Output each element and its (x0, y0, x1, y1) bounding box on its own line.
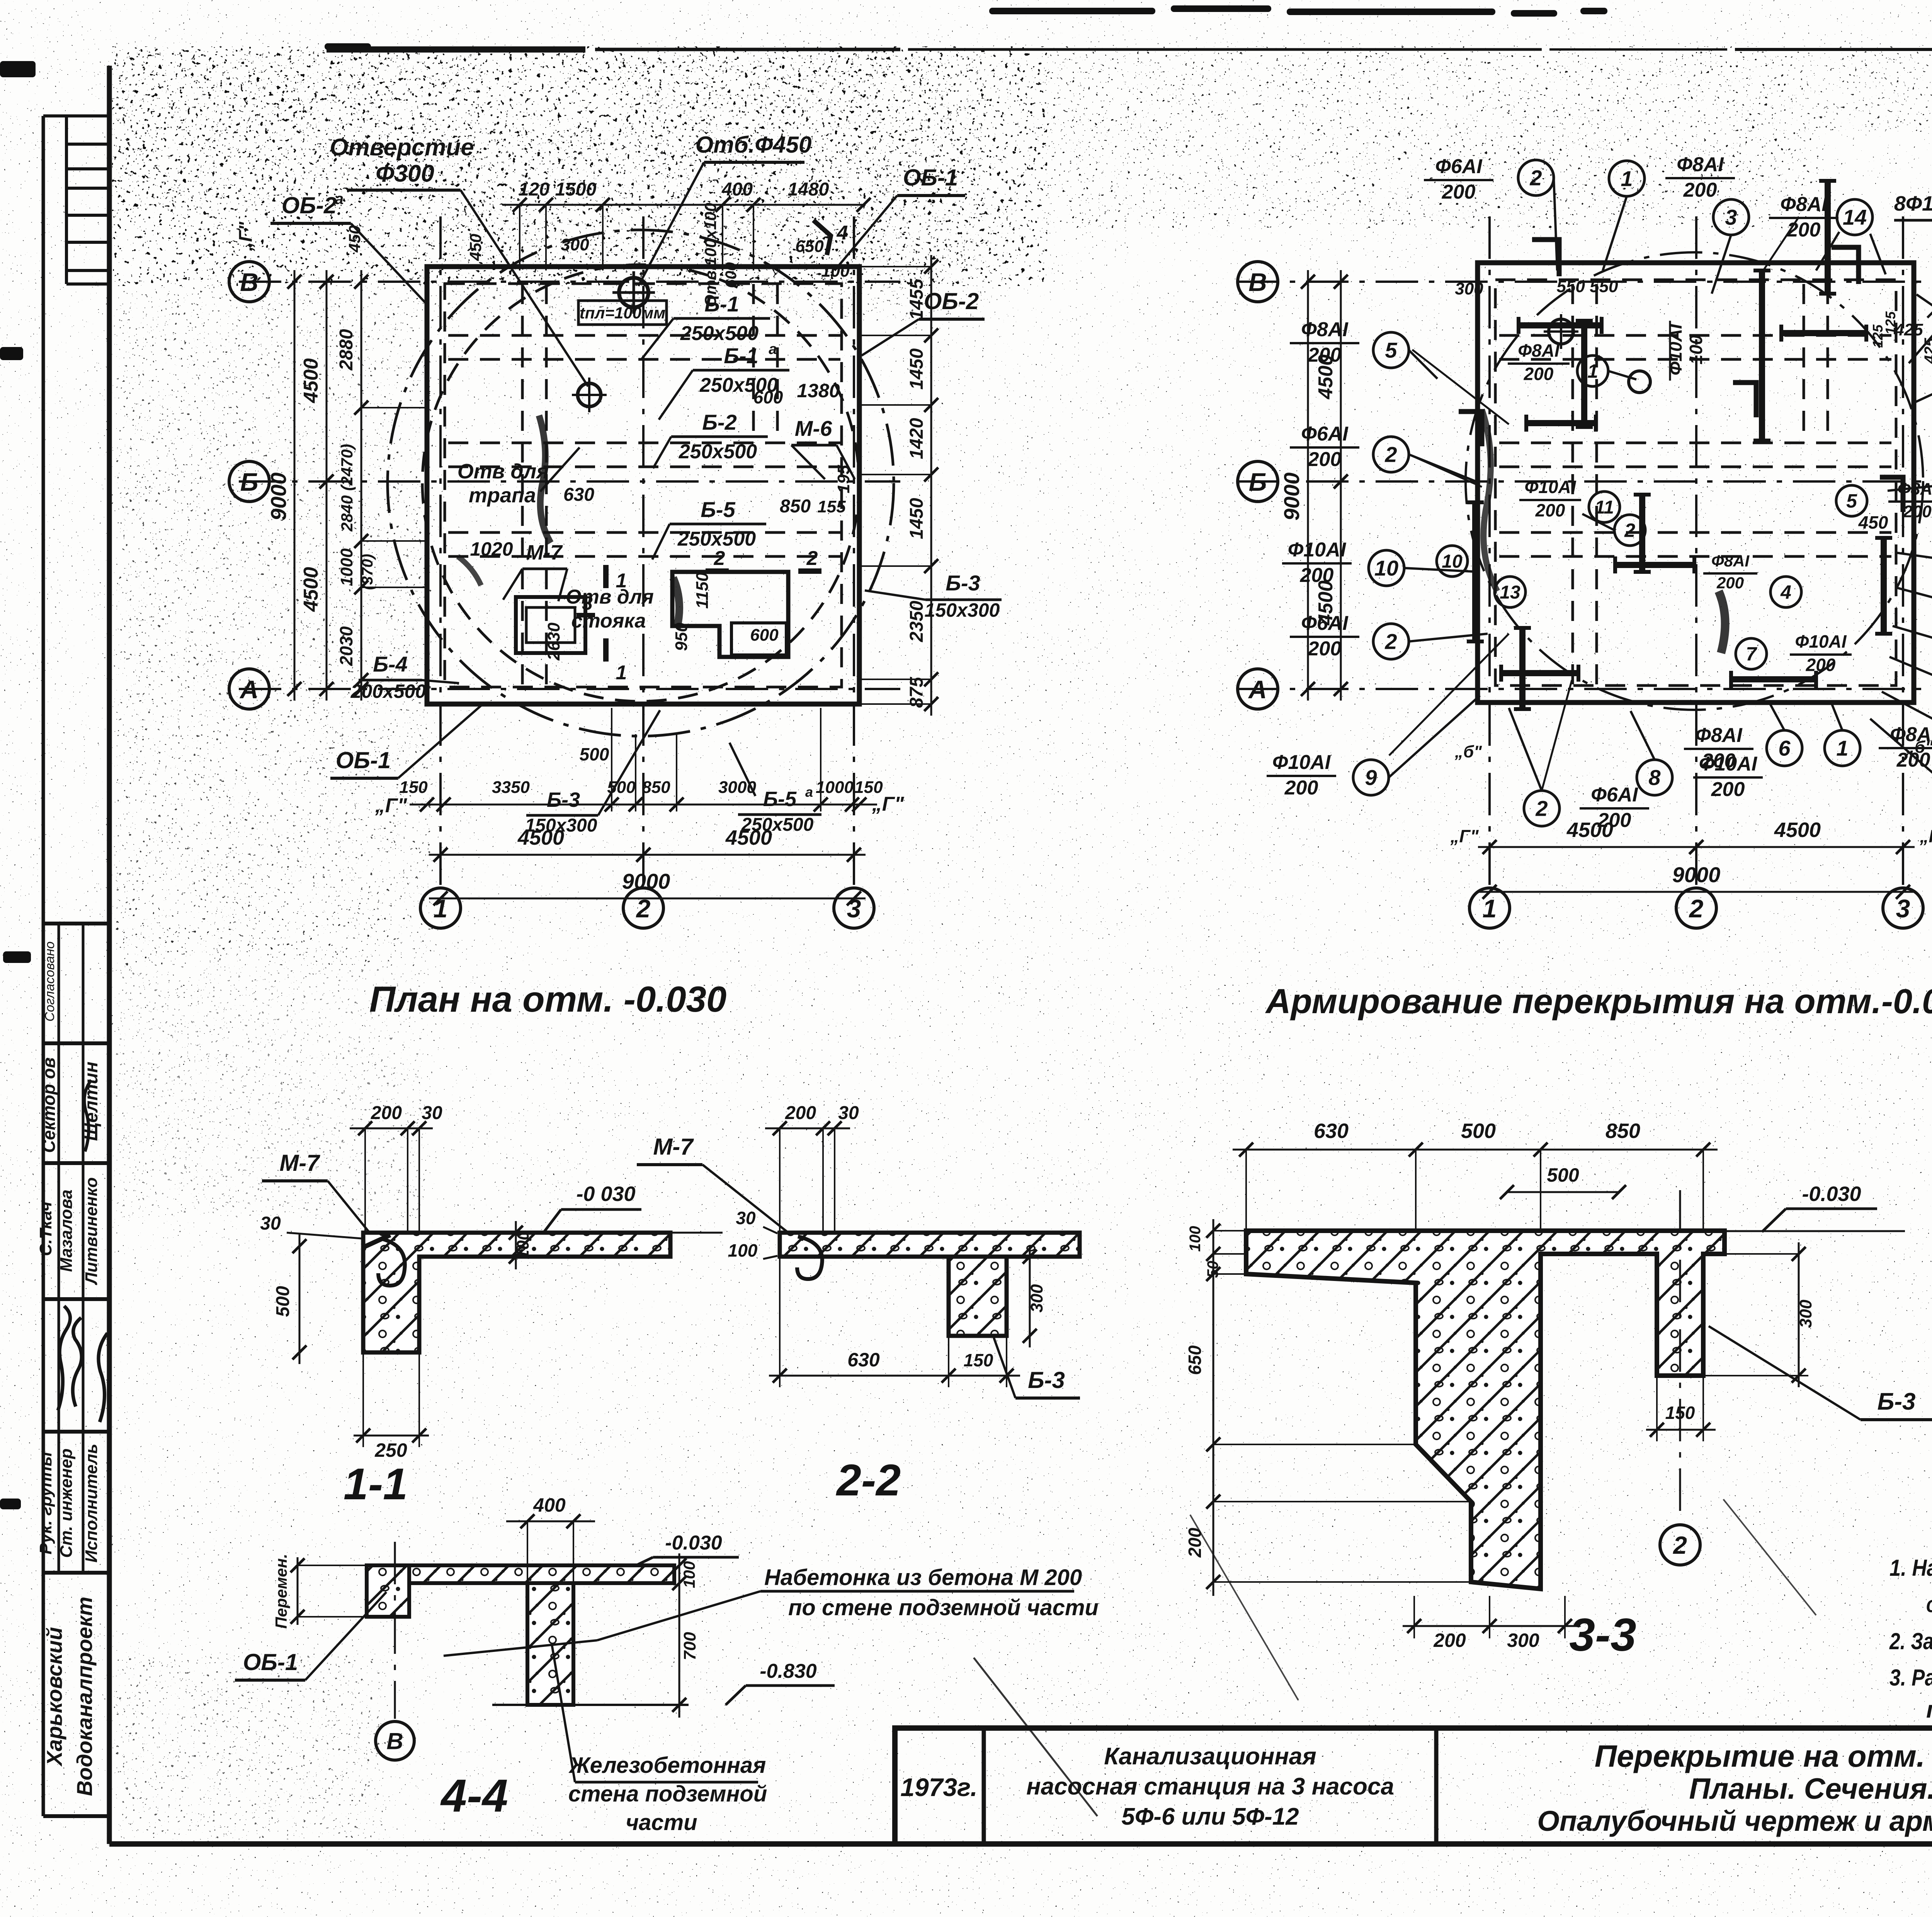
svg-text:3000: 3000 (718, 778, 756, 797)
svg-text:Железобетонная: Железобетонная (568, 1753, 766, 1778)
svg-text:200: 200 (1787, 219, 1821, 241)
svg-text:3350: 3350 (492, 778, 530, 797)
svg-text:Отверстие: Отверстие (330, 134, 474, 161)
svg-text:200: 200 (1442, 181, 1476, 203)
svg-text:по стене подземной части: по стене подземной части (788, 1595, 1099, 1620)
svg-text:1380: 1380 (797, 380, 840, 401)
svg-text:200: 200 (1284, 777, 1318, 799)
svg-text:-0.030: -0.030 (1802, 1182, 1861, 1206)
svg-text:400: 400 (533, 1494, 566, 1516)
svg-text:М-7: М-7 (526, 541, 563, 564)
svg-text:150х300: 150х300 (925, 599, 1000, 621)
svg-text:Б-3: Б-3 (1028, 1367, 1065, 1393)
svg-text:2: 2 (1535, 796, 1548, 821)
svg-text:2: 2 (1624, 520, 1635, 541)
svg-text:Ф10АI: Ф10АI (1795, 631, 1847, 651)
svg-text:Исполнитель: Исполнитель (82, 1444, 101, 1563)
svg-text:3-3: 3-3 (1569, 1609, 1636, 1661)
svg-text:500: 500 (1547, 1164, 1579, 1186)
svg-text:14: 14 (1843, 205, 1867, 230)
svg-text:30: 30 (422, 1103, 442, 1123)
svg-text:1450: 1450 (906, 498, 927, 539)
svg-text:Ф8АI: Ф8АI (1677, 153, 1724, 176)
svg-text:Водоканалпроект: Водоканалпроект (72, 1597, 97, 1796)
svg-text:120: 120 (519, 179, 549, 200)
svg-text:Ф8АI: Ф8АI (1711, 552, 1750, 570)
svg-text:600: 600 (750, 626, 779, 645)
svg-text:Планы. Сечения.: Планы. Сечения. (1689, 1772, 1932, 1805)
svg-text:План на отм. -0.030: План на отм. -0.030 (369, 979, 727, 1019)
svg-text:1973г.: 1973г. (900, 1773, 978, 1801)
svg-text:„Г": „Г" (236, 221, 256, 252)
svg-text:630: 630 (1314, 1119, 1349, 1143)
svg-text:200: 200 (1308, 638, 1342, 660)
svg-text:3. Размеры в скобках даны для: 3. Размеры в скобках даны для перекрытия… (1889, 1665, 1932, 1691)
svg-text:Б-4: Б-4 (373, 652, 407, 676)
svg-text:„б": „б" (1906, 738, 1932, 757)
svg-text:„б": „б" (1454, 742, 1482, 761)
svg-text:9000: 9000 (1279, 473, 1304, 521)
svg-text:Мазалова: Мазалова (57, 1189, 76, 1272)
svg-text:ОБ-1: ОБ-1 (903, 165, 958, 191)
svg-text:875: 875 (906, 677, 927, 708)
svg-text:1150: 1150 (693, 572, 712, 609)
svg-text:1-1: 1-1 (344, 1459, 408, 1509)
svg-text:1455: 1455 (906, 278, 927, 320)
svg-text:4-4: 4-4 (440, 1770, 508, 1822)
svg-text:13: 13 (1500, 582, 1520, 603)
svg-text:Отв для: Отв для (457, 460, 549, 483)
svg-text:4: 4 (1780, 582, 1791, 603)
svg-text:450: 450 (466, 234, 485, 261)
svg-text:1000: 1000 (337, 548, 356, 586)
svg-text:500: 500 (273, 1286, 293, 1317)
svg-text:2: 2 (1384, 629, 1397, 654)
svg-text:1: 1 (1621, 167, 1633, 191)
svg-text:4500: 4500 (1566, 818, 1613, 842)
svg-text:части: части (626, 1810, 697, 1835)
svg-text:4500: 4500 (1315, 354, 1337, 400)
svg-text:Ф10АI: Ф10АI (1288, 539, 1347, 561)
svg-text:ОБ-1: ОБ-1 (243, 1649, 298, 1675)
svg-text:600: 600 (753, 387, 783, 407)
svg-text:4500: 4500 (725, 826, 772, 849)
svg-text:Армирование перекрытия на отм.: Армирование перекрытия на отм.-0.030 (1265, 982, 1932, 1021)
svg-text:8: 8 (1648, 765, 1661, 790)
svg-text:200: 200 (1524, 364, 1554, 384)
svg-text:Ф10АI: Ф10АI (1665, 323, 1685, 375)
svg-text:„Г": „Г" (1919, 826, 1932, 846)
svg-text:150: 150 (964, 1350, 993, 1370)
svg-text:(370): (370) (359, 554, 376, 590)
svg-text:200: 200 (1535, 500, 1565, 520)
svg-text:850: 850 (642, 778, 670, 797)
svg-text:4500: 4500 (300, 567, 322, 612)
svg-text:300: 300 (1027, 1284, 1046, 1313)
svg-text:Перекрытие на отм. -0,030.: Перекрытие на отм. -0,030. (1595, 1739, 1932, 1773)
svg-text:850: 850 (780, 496, 811, 517)
svg-text:650: 650 (795, 237, 824, 256)
svg-text:9000: 9000 (1672, 862, 1721, 887)
svg-text:„Г": „Г" (375, 794, 408, 817)
svg-text:250х500: 250х500 (679, 441, 757, 463)
svg-text:3: 3 (1725, 205, 1737, 230)
svg-text:500: 500 (580, 744, 609, 764)
svg-text:-0.030: -0.030 (665, 1532, 722, 1554)
svg-text:150: 150 (399, 778, 428, 797)
svg-text:М-7: М-7 (653, 1134, 694, 1160)
svg-text:425: 425 (1894, 320, 1923, 339)
svg-text:630: 630 (847, 1349, 880, 1371)
svg-text:600: 600 (723, 262, 740, 288)
svg-text:2: 2 (806, 547, 818, 570)
svg-text:9: 9 (1365, 765, 1377, 790)
svg-text:Рук. группы: Рук. группы (36, 1452, 55, 1555)
svg-text:Б-3: Б-3 (1877, 1388, 1915, 1415)
svg-text:1420: 1420 (906, 418, 927, 459)
svg-text:50: 50 (1204, 1261, 1221, 1278)
svg-text:300: 300 (561, 235, 589, 254)
svg-text:200: 200 (1711, 778, 1745, 801)
svg-text:10: 10 (1374, 556, 1398, 580)
svg-text:850: 850 (1605, 1119, 1640, 1143)
svg-text:1480: 1480 (788, 179, 829, 200)
svg-text:В: В (240, 268, 259, 296)
svg-text:1020: 1020 (470, 538, 513, 560)
svg-text:А: А (1248, 675, 1267, 704)
svg-text:1500: 1500 (555, 179, 597, 200)
svg-text:Отв.100х100: Отв.100х100 (701, 203, 719, 308)
svg-text:2-2: 2-2 (836, 1456, 901, 1505)
svg-text:ОБ-1: ОБ-1 (336, 747, 391, 773)
svg-text:4500: 4500 (1315, 580, 1337, 626)
svg-text:4: 4 (837, 222, 848, 244)
svg-text:Перемен.: Перемен. (272, 1554, 290, 1629)
svg-text:30: 30 (736, 1208, 756, 1228)
svg-text:200: 200 (1702, 750, 1736, 772)
svg-text:2: 2 (1529, 166, 1542, 190)
svg-text:2030: 2030 (336, 626, 356, 666)
svg-text:550 550: 550 550 (1556, 277, 1618, 296)
svg-text:700: 700 (680, 1632, 699, 1660)
svg-text:Отв для: Отв для (566, 586, 654, 608)
svg-text:500: 500 (1461, 1119, 1496, 1143)
svg-text:стена подземной: стена подземной (568, 1781, 767, 1806)
svg-text:200: 200 (1433, 1630, 1466, 1651)
svg-text:Опалубочный чертеж и армирован: Опалубочный чертеж и армирование. (1537, 1805, 1932, 1837)
svg-text:5: 5 (1846, 490, 1857, 512)
svg-text:6: 6 (1778, 736, 1791, 760)
svg-text:100: 100 (680, 1561, 698, 1588)
svg-text:Б-5: Б-5 (701, 497, 735, 522)
svg-text:5Ф-6 или 5Ф-12: 5Ф-6 или 5Ф-12 (1121, 1803, 1299, 1830)
svg-text:Б-3: Б-3 (547, 788, 580, 811)
svg-text:Б-3: Б-3 (946, 571, 980, 595)
svg-text:трапа: трапа (469, 484, 536, 507)
svg-text:Ф300: Ф300 (376, 160, 434, 187)
svg-text:100: 100 (1187, 1226, 1204, 1252)
svg-text:ОБ-2: ОБ-2 (282, 192, 337, 218)
svg-text:„Г": „Г" (1450, 826, 1479, 846)
svg-text:450: 450 (1858, 512, 1888, 532)
svg-text:30: 30 (838, 1103, 859, 1123)
svg-text:4500: 4500 (300, 358, 322, 403)
svg-text:9000: 9000 (622, 869, 670, 893)
svg-text:9000: 9000 (266, 473, 291, 521)
svg-text:2: 2 (1673, 1531, 1687, 1559)
svg-text:2. Защитный слой бетона для ра: 2. Защитный слой бетона для рабочей арма… (1889, 1628, 1932, 1654)
svg-text:Набетонка из бетона М 200: Набетонка из бетона М 200 (764, 1565, 1082, 1590)
svg-text:250: 250 (374, 1439, 407, 1461)
svg-text:1: 1 (1836, 736, 1848, 760)
svg-text:Сектор ов: Сектор ов (39, 1057, 59, 1153)
svg-text:2: 2 (1689, 894, 1704, 923)
svg-text:200: 200 (371, 1103, 402, 1123)
svg-text:„Г": „Г" (872, 793, 905, 815)
svg-text:Ст. инженер: Ст. инженер (57, 1448, 76, 1558)
svg-text:Б: Б (1249, 468, 1267, 496)
svg-text:Согласовано: Согласовано (43, 941, 57, 1021)
svg-text:1. Набетонка по стене подземно: 1. Набетонка по стене подземной части вы… (1889, 1555, 1932, 1581)
svg-text:300: 300 (1507, 1630, 1539, 1651)
svg-text:Ф8АI: Ф8АI (1695, 724, 1743, 747)
svg-text:200: 200 (1716, 574, 1744, 592)
svg-text:Ф6АI: Ф6АI (1435, 155, 1483, 178)
svg-text:1: 1 (616, 662, 627, 684)
svg-text:2840 (2470): 2840 (2470) (338, 444, 356, 532)
svg-text:1450: 1450 (906, 348, 927, 390)
svg-text:М-6: М-6 (795, 416, 832, 441)
svg-text:Отб.Ф450: Отб.Ф450 (696, 132, 812, 158)
svg-text:200: 200 (1308, 448, 1342, 471)
svg-text:Б-5: Б-5 (763, 788, 797, 811)
svg-text:Ф8АI: Ф8АI (1898, 480, 1932, 498)
svg-text:3: 3 (582, 592, 593, 614)
svg-text:200: 200 (785, 1103, 816, 1123)
svg-text:300: 300 (1455, 279, 1483, 298)
svg-text:Ф10АI: Ф10АI (1524, 477, 1576, 497)
svg-text:tпл=100мм: tпл=100мм (580, 304, 666, 322)
svg-text:100: 100 (821, 262, 850, 281)
svg-text:а: а (805, 784, 813, 800)
svg-text:насосная станция на 3 насоса: насосная станция на 3 насоса (1026, 1773, 1394, 1800)
svg-text:Ф8АI: Ф8АI (1518, 340, 1560, 361)
svg-text:4500: 4500 (1774, 818, 1821, 842)
svg-text:Б: Б (240, 468, 259, 496)
svg-text:100: 100 (1686, 335, 1706, 364)
svg-text:5: 5 (1385, 338, 1397, 362)
svg-text:630: 630 (563, 485, 594, 505)
svg-text:Ф6АI: Ф6АI (1591, 784, 1638, 806)
svg-text:200: 200 (1903, 502, 1932, 521)
svg-text:Б-1: Б-1 (724, 344, 758, 368)
svg-text:250х500: 250х500 (680, 322, 759, 345)
svg-text:Канализационная: Канализационная (1104, 1743, 1316, 1770)
svg-text:Б-2: Б-2 (702, 410, 736, 434)
svg-text:300: 300 (1796, 1300, 1815, 1328)
svg-text:-0 030: -0 030 (576, 1182, 635, 1206)
svg-text:Ф8АI: Ф8АI (1780, 193, 1828, 216)
svg-text:1: 1 (616, 570, 627, 592)
svg-text:950: 950 (672, 623, 691, 651)
svg-text:10: 10 (1442, 551, 1463, 572)
svg-text:Литвиненко: Литвиненко (82, 1177, 101, 1285)
svg-text:200: 200 (1806, 655, 1836, 675)
svg-text:200: 200 (1185, 1527, 1205, 1558)
svg-text:2350: 2350 (906, 600, 927, 642)
svg-text:11: 11 (1595, 497, 1614, 518)
svg-text:2: 2 (714, 547, 725, 570)
svg-text:195: 195 (834, 465, 853, 493)
svg-text:одновременно с бетонированием: одновременно с бетонированием плиты и вн… (1926, 1592, 1932, 1617)
svg-text:450: 450 (345, 225, 364, 253)
svg-text:2630: 2630 (544, 623, 563, 661)
svg-text:В: В (386, 1728, 403, 1754)
svg-text:В: В (1248, 268, 1267, 296)
svg-text:650: 650 (1185, 1345, 1205, 1375)
svg-text:Харьковский: Харьковский (42, 1627, 66, 1767)
svg-text:С.Ткач: С.Ткач (36, 1201, 55, 1256)
svg-text:2: 2 (1384, 442, 1397, 467)
svg-text:1: 1 (1587, 361, 1598, 382)
svg-text:при Нк=-4.0м.: при Нк=-4.0м. (1926, 1696, 1932, 1723)
svg-text:М-7: М-7 (279, 1150, 320, 1176)
svg-text:8Ф10АI: 8Ф10АI (1894, 192, 1932, 215)
svg-text:200: 200 (1683, 179, 1717, 201)
svg-text:30: 30 (260, 1213, 281, 1234)
svg-text:100: 100 (728, 1240, 758, 1260)
svg-text:Ф10АI: Ф10АI (1272, 751, 1331, 774)
svg-text:а: а (769, 341, 777, 357)
svg-text:А: А (239, 675, 259, 704)
svg-text:а: а (335, 191, 344, 208)
svg-text:7: 7 (1746, 643, 1757, 665)
svg-text:125: 125 (1870, 324, 1886, 348)
svg-text:-0.830: -0.830 (760, 1660, 817, 1682)
svg-text:155: 155 (817, 497, 846, 516)
svg-text:100: 100 (514, 1231, 532, 1259)
svg-text:425: 425 (1922, 338, 1932, 364)
svg-text:400: 400 (721, 179, 753, 200)
svg-text:4500: 4500 (517, 826, 564, 849)
svg-text:2880: 2880 (336, 329, 357, 371)
